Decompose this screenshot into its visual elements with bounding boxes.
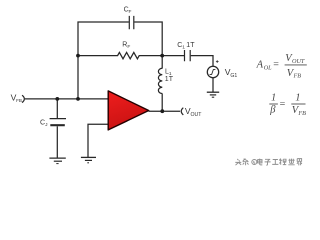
svg-text:=: = [273, 60, 279, 71]
svg-text:β: β [269, 104, 276, 115]
svg-text:OUT: OUT [191, 112, 203, 118]
svg-text:=: = [280, 99, 286, 110]
svg-text:1: 1 [182, 45, 185, 51]
svg-text:OUT: OUT [292, 58, 305, 65]
svg-text:FB: FB [293, 73, 302, 80]
svg-text:1: 1 [271, 92, 276, 103]
svg-text:FB: FB [16, 98, 22, 103]
svg-text:1T: 1T [186, 42, 195, 49]
svg-text:1: 1 [295, 92, 300, 103]
svg-text:1T: 1T [165, 76, 174, 83]
svg-text:G1: G1 [230, 73, 237, 79]
svg-text:FB: FB [297, 110, 306, 117]
svg-text:F: F [129, 9, 132, 15]
svg-text:J: J [45, 122, 48, 128]
svg-text:OL: OL [264, 64, 272, 71]
svg-text:A: A [256, 59, 264, 70]
svg-text:F: F [127, 44, 130, 50]
